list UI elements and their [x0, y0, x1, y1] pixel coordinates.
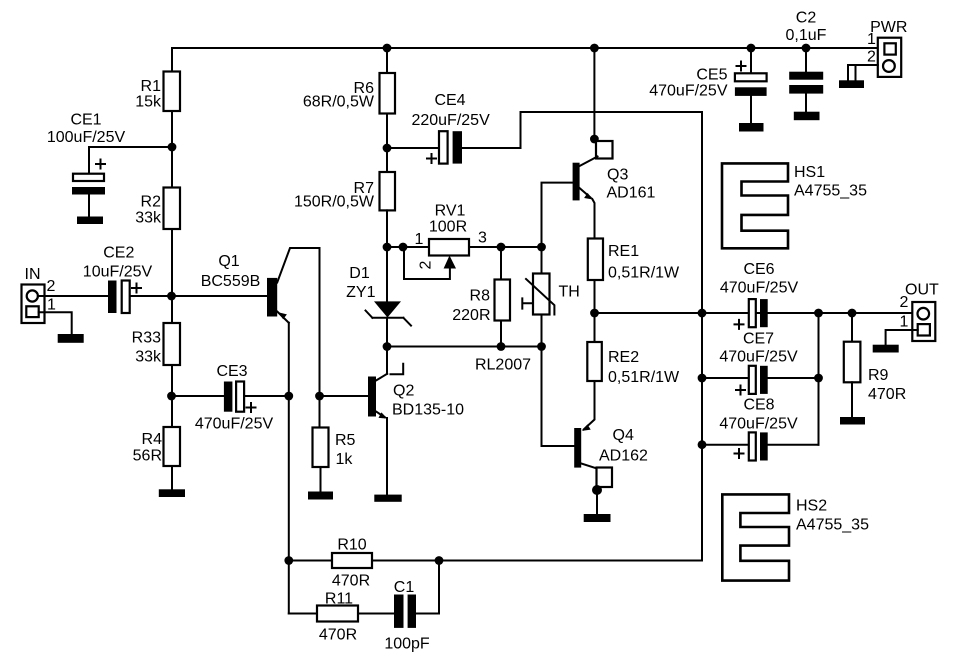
wire R2 to base node: [171, 229, 173, 323]
node R8 bottom: [497, 342, 506, 351]
resistor R4: [133, 427, 180, 466]
svg-text:R33: R33: [132, 330, 161, 347]
svg-text:AD161: AD161: [607, 185, 656, 202]
svg-text:15k: 15k: [135, 93, 162, 110]
svg-text:R4: R4: [142, 431, 163, 448]
wire IN pin1 to ground: [39, 312, 72, 335]
wire R6 to R7: [386, 114, 388, 173]
wire R8 leads: [500, 247, 502, 347]
svg-text:1: 1: [900, 314, 909, 331]
node R9 top: [848, 309, 857, 318]
svg-text:CE7: CE7: [743, 331, 774, 348]
svg-text:CE1: CE1: [70, 112, 101, 129]
ground Q4: [584, 514, 611, 522]
heatsink HS1: [722, 163, 867, 248]
svg-text:CE3: CE3: [216, 363, 247, 380]
svg-text:68R/0,5W: 68R/0,5W: [303, 94, 375, 111]
wire Q1 emitter down: [288, 323, 290, 396]
resistor R1: [135, 72, 180, 112]
node rail R6: [383, 44, 392, 53]
wire CE4 to bootstrap: [462, 112, 702, 148]
wire R5 bottom lead: [320, 467, 322, 492]
wire R5 top lead: [319, 396, 321, 428]
svg-text:2: 2: [47, 278, 56, 295]
svg-text:10uF/25V: 10uF/25V: [83, 263, 153, 280]
transistor Q4: [542, 347, 649, 490]
wire output row: [595, 312, 913, 314]
wire R10 right: [372, 560, 438, 562]
svg-text:A4755_35: A4755_35: [796, 517, 869, 534]
node CE7 left: [698, 374, 707, 383]
wire R1 to R2: [171, 111, 173, 188]
node TH top: [537, 243, 546, 252]
svg-text:0,51R/1W: 0,51R/1W: [608, 369, 680, 386]
resistor R10: [332, 537, 372, 590]
wire feedback column: [288, 396, 290, 614]
resistor R5: [313, 428, 356, 469]
svg-text:A4755_35: A4755_35: [794, 183, 867, 200]
svg-text:100pF: 100pF: [384, 636, 430, 653]
capacitor C2: [786, 9, 827, 112]
wire to R10: [289, 560, 332, 562]
heatsink HS2: [722, 494, 869, 580]
zener diode D1: [346, 265, 411, 326]
node CE5: [747, 44, 756, 53]
wire R6 top lead: [386, 48, 388, 73]
capacitor CE7: [702, 331, 819, 395]
capacitor CE8: [702, 397, 819, 461]
svg-text:1: 1: [867, 31, 876, 48]
resistor R6: [303, 73, 395, 114]
node CE8 left: [698, 440, 707, 449]
svg-text:C2: C2: [796, 9, 817, 26]
transistor Q3: [542, 139, 656, 247]
node rail Q3: [590, 44, 599, 53]
svg-text:OUT: OUT: [905, 282, 939, 299]
node C1/R10: [435, 556, 444, 565]
wire to R11: [289, 613, 317, 615]
wire CE3 left: [172, 395, 224, 397]
ground PWR: [839, 80, 864, 88]
wire Q2 emitter down: [386, 418, 388, 495]
ground IN: [58, 334, 84, 343]
svg-text:470uF/25V: 470uF/25V: [720, 279, 799, 296]
node RL row left: [383, 342, 392, 351]
svg-text:C1: C1: [394, 579, 415, 596]
svg-text:TH: TH: [559, 283, 580, 300]
svg-text:150R/0,5W: 150R/0,5W: [294, 194, 375, 211]
svg-text:470R: 470R: [332, 573, 370, 590]
svg-text:BD135-10: BD135-10: [392, 402, 464, 419]
capacitor CE1: [47, 112, 172, 217]
node TH bottom: [537, 342, 546, 351]
wire Q4 to ground: [596, 490, 598, 514]
svg-text:CE6: CE6: [743, 261, 774, 278]
wire top +V rail: [172, 47, 878, 49]
svg-text:220uF/25V: 220uF/25V: [411, 112, 490, 129]
wire D1 top lead: [386, 247, 388, 301]
wire R10 row to right column: [438, 560, 702, 562]
transistor Q2: [320, 364, 465, 419]
node emitter/feedback: [284, 392, 293, 401]
svg-text:Q1: Q1: [218, 253, 239, 270]
resistor R2: [135, 188, 180, 230]
wire CE2 to base node: [131, 295, 172, 297]
node Q1 base: [167, 292, 176, 301]
svg-text:470R: 470R: [868, 386, 906, 403]
node bootstrap/output: [698, 309, 707, 318]
node CE1 tap: [168, 143, 177, 152]
node Q3 collector: [590, 135, 599, 144]
svg-text:1: 1: [47, 297, 56, 314]
svg-text:0,1uF: 0,1uF: [786, 27, 827, 44]
connector OUT: [900, 282, 939, 342]
svg-text:HS1: HS1: [794, 164, 825, 181]
wire RE1 to RE2: [594, 280, 596, 342]
connector PWR: [867, 19, 907, 77]
ground C2: [794, 112, 820, 121]
svg-text:1k: 1k: [336, 451, 354, 468]
wire CE4 left: [387, 147, 439, 149]
wire R4 bottom: [171, 396, 173, 489]
node Q4 collector: [592, 485, 602, 495]
wire RV1 pin3 row: [469, 246, 542, 248]
wire bootstrap column: [701, 112, 703, 561]
resistor R9: [844, 313, 906, 417]
svg-text:Q4: Q4: [613, 427, 634, 444]
svg-text:R10: R10: [337, 537, 366, 554]
node RV1 left: [383, 243, 392, 252]
node R10 left: [284, 556, 293, 565]
wire Q1 collector down: [319, 248, 321, 396]
svg-text:RE2: RE2: [608, 349, 639, 366]
wire C1 to node: [416, 561, 439, 614]
wire R11 to C1: [358, 613, 394, 615]
wire CE3 right: [244, 395, 289, 397]
capacitor CE6: [720, 261, 799, 329]
wire D1 bottom lead: [386, 318, 388, 347]
svg-text:BC559B: BC559B: [201, 273, 261, 290]
svg-text:CE2: CE2: [103, 244, 134, 261]
wire R1 top lead: [171, 48, 173, 72]
svg-text:ZY1: ZY1: [346, 284, 375, 301]
svg-text:R5: R5: [335, 432, 356, 449]
node CE6 right: [814, 309, 823, 318]
node output: [590, 309, 599, 318]
wire OUT pin1 to ground: [886, 330, 918, 345]
svg-text:33k: 33k: [135, 349, 162, 366]
svg-text:470uF/25V: 470uF/25V: [719, 349, 798, 366]
svg-text:2: 2: [418, 260, 435, 269]
svg-text:470uF/25V: 470uF/25V: [649, 82, 728, 99]
ground Q2: [374, 495, 401, 502]
wire R33 to CE3 node: [171, 365, 173, 396]
svg-text:470uF/25V: 470uF/25V: [719, 416, 798, 433]
svg-text:CE5: CE5: [696, 67, 727, 84]
svg-text:56R: 56R: [133, 448, 162, 465]
svg-text:3: 3: [478, 230, 487, 247]
node R8 top: [497, 243, 506, 252]
svg-text:470uF/25V: 470uF/25V: [195, 416, 274, 433]
node R5/base: [315, 392, 324, 401]
svg-text:HS2: HS2: [796, 498, 827, 515]
wire Q3 collector column: [593, 48, 595, 139]
svg-text:RV1: RV1: [435, 203, 466, 220]
transistor Q1: [172, 248, 320, 323]
svg-text:33k: 33k: [135, 210, 162, 227]
node wiper return: [399, 243, 408, 252]
svg-text:470R: 470R: [319, 627, 357, 644]
svg-text:AD162: AD162: [599, 448, 648, 465]
capacitor CE3: [195, 363, 274, 433]
svg-text:CE8: CE8: [743, 397, 774, 414]
svg-text:0,51R/1W: 0,51R/1W: [608, 264, 680, 281]
node CE3 tap: [167, 392, 176, 401]
ground R4: [159, 489, 185, 497]
svg-text:R8: R8: [470, 288, 491, 305]
node CE4 tap: [383, 144, 392, 153]
capacitor CE4: [411, 92, 490, 164]
wire RL2007 row: [387, 346, 542, 348]
svg-text:2: 2: [900, 294, 909, 311]
wire to RV1 pin1: [387, 246, 429, 248]
node C2: [802, 44, 811, 53]
svg-text:Q2: Q2: [393, 383, 414, 400]
capacitor CE5: [649, 48, 766, 123]
potentiometer RV1: [404, 203, 487, 280]
svg-text:100R: 100R: [429, 219, 467, 236]
svg-text:D1: D1: [349, 265, 370, 282]
svg-text:100uF/25V: 100uF/25V: [47, 129, 126, 146]
ground CE1: [77, 217, 103, 225]
svg-text:1: 1: [415, 231, 424, 248]
ground OUT: [873, 345, 899, 353]
svg-text:CE4: CE4: [434, 92, 465, 109]
capacitor CE2: [83, 244, 153, 313]
node CE7 right: [814, 374, 823, 383]
ground R5: [308, 492, 333, 500]
resistor R33: [132, 323, 180, 366]
wire R7 to RV1 row: [386, 210, 388, 247]
thermistor TH: [522, 247, 580, 347]
capacitor C1: [384, 579, 430, 653]
connector IN: [22, 266, 57, 323]
resistor RE2: [587, 342, 680, 386]
svg-text:R11: R11: [325, 591, 353, 608]
svg-text:R9: R9: [868, 367, 889, 384]
ground R9: [840, 417, 865, 425]
wire Q2 collector: [386, 347, 388, 374]
svg-text:RL2007: RL2007: [475, 357, 531, 374]
svg-text:2: 2: [867, 49, 876, 66]
svg-text:Q3: Q3: [607, 167, 628, 184]
svg-text:RE1: RE1: [608, 243, 639, 260]
ground CE5: [739, 123, 764, 132]
svg-text:220R: 220R: [452, 307, 490, 324]
resistor R11: [317, 591, 358, 644]
wire CE right column: [818, 313, 820, 445]
resistor R8: [452, 280, 510, 325]
svg-text:IN: IN: [25, 266, 41, 283]
wire IN pin2 to CE2: [38, 295, 108, 297]
svg-text:R2: R2: [141, 194, 162, 211]
resistor RE1: [588, 239, 680, 282]
wire PWR pin2 to ground: [848, 65, 878, 80]
resistor R7: [294, 172, 395, 211]
